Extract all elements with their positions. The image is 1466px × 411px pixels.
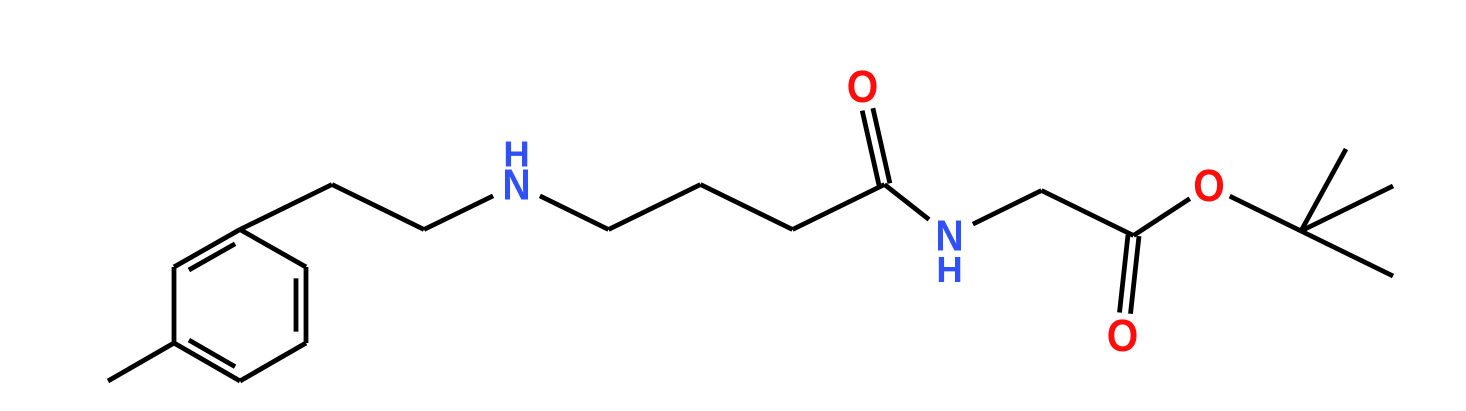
- tert-butyl methyl 2: [1301, 231, 1393, 276]
- ester C=O double bond: [1120, 235, 1129, 313]
- methyl substituent bond: [108, 343, 174, 381]
- benzene ring double bond C6-C1: [174, 230, 240, 268]
- benzene ring edge C3-C4: [240, 343, 306, 381]
- amine N-H hydrogen label: [503, 134, 529, 175]
- wire CH2-CH2: [701, 185, 793, 230]
- wire ring to CH2: [240, 185, 332, 230]
- bond amide N to CH2: [973, 191, 1042, 225]
- ester carbonyl oxygen label O3: [1107, 311, 1138, 362]
- svg-text:N: N: [502, 161, 530, 209]
- svg-text:O: O: [847, 62, 878, 113]
- tert-butyl methyl 3: [1301, 186, 1393, 231]
- bond amine N to CH2: [540, 196, 609, 230]
- amide nitrogen label N2: [935, 212, 963, 260]
- benzene ring edge C5-C6: [172, 267, 177, 343]
- wire CH2-CH2: [609, 185, 701, 230]
- svg-text:O: O: [1193, 161, 1224, 212]
- benzene ring edge C1-C2: [240, 230, 306, 268]
- tert-butyl methyl 1: [1301, 149, 1346, 231]
- bond O to quaternary C: [1230, 196, 1301, 231]
- bond CH2 to ester C: [1042, 191, 1134, 236]
- benzene ring double bond C2-C3: [304, 267, 309, 343]
- svg-text:H: H: [936, 249, 962, 290]
- carbonyl C=O double bond: [873, 108, 890, 183]
- wire CH2-CH2: [332, 185, 424, 230]
- ester bridging oxygen label O2: [1193, 161, 1224, 212]
- bond ester C to bridging O: [1134, 199, 1190, 236]
- wire CH2 to carbonyl C: [793, 185, 885, 230]
- amine nitrogen label N1: [502, 161, 530, 209]
- amide N-H hydrogen label: [936, 249, 962, 290]
- svg-text:O: O: [1107, 311, 1138, 362]
- benzene ring double bond C4-C5: [174, 343, 240, 381]
- bond carbonyl C to amide N: [885, 185, 930, 220]
- bond CH2 to amine N: [424, 196, 493, 230]
- carbonyl oxygen label O1: [847, 62, 878, 113]
